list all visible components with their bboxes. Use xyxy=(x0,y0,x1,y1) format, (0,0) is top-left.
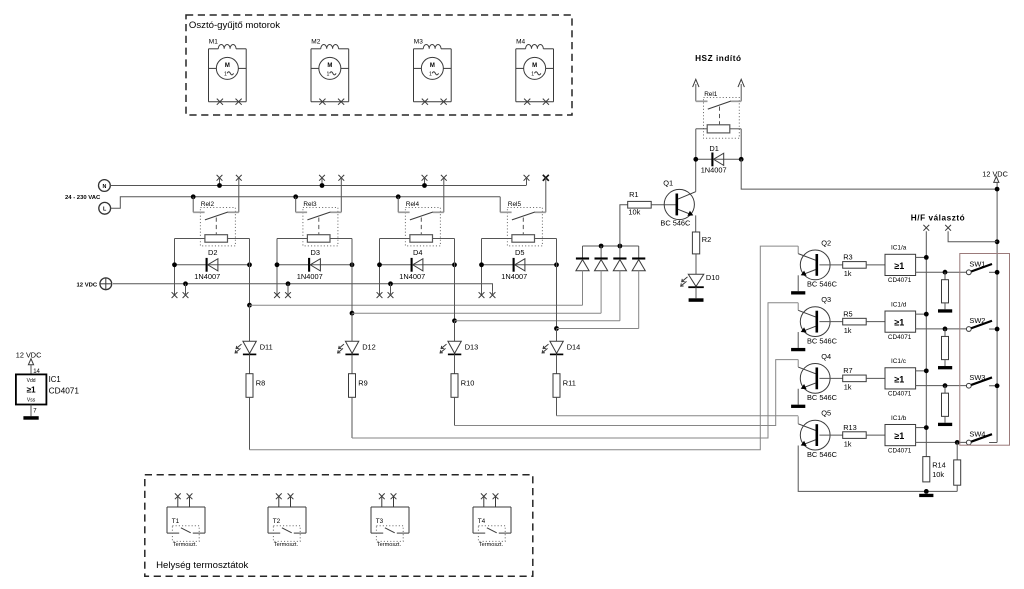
svg-text:HSZ indító: HSZ indító xyxy=(695,54,741,63)
connector X pair T3 xyxy=(379,493,397,499)
diode D6 xyxy=(576,246,589,305)
wire IC1/c output xyxy=(916,383,967,388)
relay Rel5 xyxy=(500,201,546,246)
LED D14 xyxy=(542,341,580,354)
svg-text:IC1/c: IC1/c xyxy=(891,358,907,365)
wire LED column D14 xyxy=(556,329,558,342)
pulldown resistor row 4 xyxy=(926,442,960,491)
svg-text:CD4071: CD4071 xyxy=(888,334,912,341)
svg-text:N: N xyxy=(102,184,106,190)
svg-text:Termoszt.: Termoszt. xyxy=(479,542,504,548)
wire Q3 base drop xyxy=(797,303,799,311)
connector X pair T1 xyxy=(175,493,193,499)
LED D12 xyxy=(338,341,376,354)
wire Q4 emitter to ground xyxy=(797,389,799,405)
svg-text:CD4071: CD4071 xyxy=(49,386,80,396)
wire coil leads Rel2 xyxy=(175,238,250,240)
wire LED column D11 xyxy=(249,305,251,341)
svg-text:12 VDC: 12 VDC xyxy=(77,282,98,288)
wire bus to diode row 2 xyxy=(352,312,601,314)
svg-text:BC 546C: BC 546C xyxy=(660,218,691,227)
wire 12VDC stub Rel3 xyxy=(286,281,291,295)
wire bus to diode row 1 xyxy=(250,304,583,306)
svg-text:IC1: IC1 xyxy=(49,375,61,384)
diode D1 1N4007 xyxy=(693,144,743,175)
node bus junction Rel2 xyxy=(247,303,252,308)
connector X pair above Rel5 xyxy=(524,175,549,181)
wire L arm Rel4 xyxy=(396,194,401,212)
wire left leg Rel2 xyxy=(174,239,176,296)
thermostat T4 xyxy=(473,496,511,548)
svg-text:Q5: Q5 xyxy=(821,409,831,418)
svg-text:CD4071: CD4071 xyxy=(888,391,912,398)
wire R1 to Q1 base xyxy=(651,204,675,206)
wire R9 to Q3 base xyxy=(352,303,798,438)
svg-text:M: M xyxy=(532,63,537,69)
svg-text:D1: D1 xyxy=(709,144,718,153)
wire 12VDC rail xyxy=(996,182,998,442)
wire LED to R9 xyxy=(351,354,353,373)
svg-text:T1: T1 xyxy=(172,518,180,525)
resistor R13 1k xyxy=(819,423,885,449)
ground Q2 xyxy=(791,291,805,294)
LED D13 xyxy=(440,341,478,354)
svg-text:CD4071: CD4071 xyxy=(888,447,912,454)
LED D10 xyxy=(681,273,720,287)
wire L arm Rel3 xyxy=(293,194,298,212)
svg-text:H/F választó: H/F választó xyxy=(911,213,965,222)
svg-text:Rel5: Rel5 xyxy=(508,201,522,208)
resistor R7 1k xyxy=(819,366,885,392)
wire diode OR top bus xyxy=(583,244,639,249)
wire R11 to Q5 base xyxy=(557,415,799,417)
svg-text:IC1/a: IC1/a xyxy=(891,245,907,252)
svg-text:≥1: ≥1 xyxy=(894,374,904,384)
motor M2 xyxy=(311,39,349,105)
svg-text:T2: T2 xyxy=(273,518,281,525)
thermostat T3 xyxy=(371,496,409,548)
transistor Q4 BC546C xyxy=(798,352,837,402)
OR gate IC1/b CD4071 xyxy=(885,415,916,455)
svg-text:Rel1: Rel1 xyxy=(704,91,718,98)
terminal L xyxy=(99,202,111,214)
svg-text:Rel3: Rel3 xyxy=(303,201,317,208)
wire bus to diode row 3 xyxy=(455,320,620,322)
ground below D10 xyxy=(689,298,704,302)
svg-text:IC1/d: IC1/d xyxy=(891,301,907,308)
wire coil leads Rel5 xyxy=(482,238,557,240)
wire D10 to ground xyxy=(695,287,697,298)
wire Q5 base drop xyxy=(797,416,799,424)
svg-text:1: 1 xyxy=(429,72,432,78)
ground pulldown row 3 xyxy=(938,423,952,426)
wire right leg Rel2 xyxy=(249,239,251,306)
wire IC1/a output xyxy=(916,270,967,275)
wire left leg Rel5 xyxy=(481,239,483,296)
diode D3 1N4007 xyxy=(275,248,355,281)
terminal 12 VDC (+) xyxy=(100,278,112,290)
svg-text:M2: M2 xyxy=(311,39,320,46)
wire IC1/c input to select rail xyxy=(916,368,929,373)
svg-text:1k: 1k xyxy=(844,269,852,278)
relay Rel1 xyxy=(696,91,741,138)
svg-text:R8: R8 xyxy=(256,378,265,387)
svg-text:BC 546C: BC 546C xyxy=(807,393,838,402)
node rail junctions xyxy=(995,187,1000,245)
wire IC1/b input to select rail xyxy=(916,425,929,430)
svg-text:Rel4: Rel4 xyxy=(406,201,420,208)
switch SW1 xyxy=(966,259,999,274)
svg-text:R7: R7 xyxy=(843,366,852,375)
switch SW4 xyxy=(966,429,997,444)
diode D8 xyxy=(613,246,626,321)
wire N stub Rel3 xyxy=(320,178,325,188)
resistor R3 1k xyxy=(819,253,885,279)
wire L arm Rel5 xyxy=(499,197,501,213)
wire base node to R1 xyxy=(620,205,628,246)
wire LED to R10 xyxy=(454,354,456,373)
switch SW2 xyxy=(966,316,999,331)
svg-text:1N4007: 1N4007 xyxy=(297,272,323,281)
thermostat T1 xyxy=(167,496,205,548)
wire coil leads Rel3 xyxy=(277,238,352,240)
wire Vss xyxy=(30,405,32,417)
svg-text:Osztó-gyűjtő motorok: Osztó-gyűjtő motorok xyxy=(189,20,280,31)
svg-text:12 VDC: 12 VDC xyxy=(982,170,1008,179)
selector frame SW1-SW4 xyxy=(960,254,1010,446)
arrow out left Rel1 xyxy=(693,79,699,101)
svg-text:M: M xyxy=(327,63,332,69)
svg-text:≥1: ≥1 xyxy=(27,385,37,395)
svg-text:1k: 1k xyxy=(844,439,852,448)
IC CD4071 power symbol IC1 xyxy=(16,374,80,404)
svg-text:T3: T3 xyxy=(376,518,384,525)
svg-text:1: 1 xyxy=(224,72,227,78)
ground IC1 xyxy=(23,416,38,420)
svg-text:Rel2: Rel2 xyxy=(201,201,215,208)
transistor Q3 BC546C xyxy=(798,295,837,345)
resistor R14 10k xyxy=(923,457,946,482)
wire 12VDC stub Rel5 xyxy=(492,292,494,295)
transistor Q2 BC546C xyxy=(798,239,837,289)
svg-text:Vdd: Vdd xyxy=(27,378,36,384)
wire Q1 emitter to R2 xyxy=(695,215,697,232)
connector X pair above Rel2 xyxy=(217,175,242,181)
svg-text:CD4071: CD4071 xyxy=(888,277,912,284)
thermostat T2 xyxy=(268,496,306,548)
connector X pair T2 xyxy=(276,493,294,499)
svg-text:1k: 1k xyxy=(844,326,852,335)
resistor R8 xyxy=(246,374,265,398)
wire coil leads Rel4 xyxy=(380,238,455,240)
svg-text:1N4007: 1N4007 xyxy=(701,166,727,175)
resistor R1 10k xyxy=(628,190,652,217)
svg-text:IC1/b: IC1/b xyxy=(891,415,907,422)
wire LED to R11 xyxy=(556,354,558,373)
svg-text:≥1: ≥1 xyxy=(894,261,904,271)
motor M4 xyxy=(516,39,554,105)
pulldown resistor row 1 xyxy=(942,272,949,309)
svg-text:D10: D10 xyxy=(706,273,720,282)
node bus junction Rel5 xyxy=(554,326,559,331)
ground Q4 xyxy=(791,405,805,408)
wire IC1/a input to select rail xyxy=(916,255,929,260)
wire R11 to base bus xyxy=(556,397,558,415)
wire Q4 base drop xyxy=(797,360,799,368)
wire N stub Rel5 xyxy=(526,178,528,186)
wire N stub Rel2 xyxy=(217,178,222,188)
relay Rel3 xyxy=(296,201,342,246)
relay Rel2 xyxy=(193,201,239,246)
wire L arm Rel2 xyxy=(191,194,196,212)
svg-text:R13: R13 xyxy=(843,423,857,432)
ground pulldown row 1 xyxy=(938,309,952,312)
svg-text:Q2: Q2 xyxy=(821,239,831,248)
resistor R2 xyxy=(692,232,711,254)
svg-text:R2: R2 xyxy=(702,235,711,244)
svg-text:T4: T4 xyxy=(478,518,486,525)
svg-text:M: M xyxy=(225,63,230,69)
pulldown resistor row 2 xyxy=(942,329,949,366)
transistor Q5 BC546C xyxy=(798,409,837,459)
svg-text:Termoszt.: Termoszt. xyxy=(173,542,198,548)
svg-text:10k: 10k xyxy=(932,470,944,479)
wire left leg Rel4 xyxy=(379,239,381,296)
diode D9 xyxy=(632,246,645,329)
OR gate IC1/a CD4071 xyxy=(885,245,916,285)
svg-text:Termoszt.: Termoszt. xyxy=(274,542,299,548)
svg-text:R10: R10 xyxy=(461,378,475,387)
node bus junction Rel4 xyxy=(452,318,457,323)
node ground junction xyxy=(924,489,929,494)
terminal N xyxy=(99,180,111,192)
svg-text:1: 1 xyxy=(531,72,534,78)
wire contact riser Rel3 xyxy=(340,178,342,213)
wire bus to diode row 4 xyxy=(557,328,639,330)
wire LED to R8 xyxy=(249,354,251,373)
connector X H select xyxy=(923,225,929,457)
OR gate IC1/c CD4071 xyxy=(885,358,916,398)
wire R10 to Q4 base xyxy=(455,360,799,426)
svg-text:BC 546C: BC 546C xyxy=(807,280,838,289)
wire Q2 emitter to ground xyxy=(797,275,799,291)
wire IC1/b output xyxy=(916,440,967,445)
dashed enclosure: Helység termosztátok xyxy=(145,475,533,577)
svg-text:R9: R9 xyxy=(358,378,367,387)
wire 12VDC supply line xyxy=(113,284,493,292)
wire contact riser Rel2 xyxy=(238,178,240,213)
svg-text:D13: D13 xyxy=(465,343,479,352)
svg-text:D4: D4 xyxy=(413,248,422,257)
svg-text:R1: R1 xyxy=(629,190,638,199)
wire LED column D12 xyxy=(351,313,353,341)
svg-text:24 - 230 VAC: 24 - 230 VAC xyxy=(65,195,101,201)
svg-text:D3: D3 xyxy=(311,248,320,257)
svg-text:1k: 1k xyxy=(844,383,852,392)
svg-text:≥1: ≥1 xyxy=(894,318,904,328)
svg-text:10k: 10k xyxy=(628,208,640,217)
connector X pair below Rel3 xyxy=(274,292,291,298)
svg-text:Helység termosztátok: Helység termosztátok xyxy=(156,560,248,571)
svg-text:Q1: Q1 xyxy=(663,178,673,187)
wire R8 to base bus xyxy=(249,397,251,450)
svg-text:Q3: Q3 xyxy=(821,295,831,304)
wire Rel1 coil leads xyxy=(696,129,741,160)
motor M3 xyxy=(414,39,452,105)
svg-text:L: L xyxy=(103,207,107,213)
svg-text:Termoszt.: Termoszt. xyxy=(377,542,402,548)
wire R8 to Q2 base xyxy=(250,246,799,450)
resistor R9 xyxy=(349,374,368,398)
resistor R10 xyxy=(451,374,474,398)
wire D1 to 12VDC rail xyxy=(741,159,997,189)
diode D2 1N4007 xyxy=(172,248,252,281)
connector X pair below Rel4 xyxy=(377,292,394,298)
svg-text:BC 546C: BC 546C xyxy=(807,336,838,345)
wire 12VDC stub Rel2 xyxy=(183,281,188,295)
svg-text:R3: R3 xyxy=(843,253,852,262)
wire IC1/d output xyxy=(916,327,967,332)
svg-text:M4: M4 xyxy=(516,39,525,46)
wire R10 to base bus xyxy=(454,397,456,425)
svg-text:Vss: Vss xyxy=(27,398,36,404)
svg-text:1N4007: 1N4007 xyxy=(399,272,425,281)
svg-text:12 VDC: 12 VDC xyxy=(16,351,42,360)
node bus junction Rel3 xyxy=(350,311,355,316)
svg-text:7: 7 xyxy=(33,409,37,415)
wire contact riser Rel5 xyxy=(545,178,547,213)
ground pulldown row 2 xyxy=(938,366,952,369)
connector X F select xyxy=(945,225,997,242)
svg-text:D2: D2 xyxy=(208,248,217,257)
svg-text:R14: R14 xyxy=(932,461,946,470)
transistor Q1 BC546C xyxy=(660,178,695,227)
svg-text:1: 1 xyxy=(326,72,329,78)
wire R9 to base bus xyxy=(351,397,353,438)
connector X pair above Rel4 xyxy=(422,175,447,181)
svg-text:D14: D14 xyxy=(567,343,581,352)
arrow 12VDC supply xyxy=(994,177,999,183)
svg-text:M3: M3 xyxy=(414,39,423,46)
wire IC1/d input to select rail xyxy=(916,312,929,317)
wire N line xyxy=(110,185,526,187)
pulldown resistor row 3 xyxy=(942,386,949,423)
connector X pair T4 xyxy=(481,493,499,499)
wire Vdd xyxy=(30,365,32,375)
OR gate IC1/d CD4071 xyxy=(885,301,916,341)
connector X pair above Rel3 xyxy=(319,175,344,181)
svg-text:≥1: ≥1 xyxy=(894,431,904,441)
svg-text:1N4007: 1N4007 xyxy=(194,272,220,281)
resistor R11 xyxy=(553,374,576,398)
svg-text:D11: D11 xyxy=(260,343,273,352)
arrow 12VDC IC1 xyxy=(28,359,33,365)
connector X pair below Rel5 xyxy=(479,292,496,298)
svg-text:D12: D12 xyxy=(362,343,376,352)
svg-text:Q4: Q4 xyxy=(821,352,831,361)
wire right leg Rel5 xyxy=(556,239,558,329)
wire right leg Rel3 xyxy=(351,239,353,314)
wire contact riser Rel4 xyxy=(443,178,445,213)
diode D7 xyxy=(595,246,608,313)
svg-text:M: M xyxy=(430,63,435,69)
ground Q3 xyxy=(791,348,805,351)
diode D5 1N4007 xyxy=(479,248,559,281)
wire left leg Rel3 xyxy=(276,239,278,296)
wire L line xyxy=(111,197,501,209)
wire Q1 collector to D1 xyxy=(695,159,697,191)
svg-text:BC 546C: BC 546C xyxy=(807,450,838,459)
svg-text:M1: M1 xyxy=(209,39,218,46)
wire Q2 base drop xyxy=(797,246,799,254)
resistor R5 1k xyxy=(819,309,885,335)
relay Rel4 xyxy=(398,201,444,246)
svg-text:R5: R5 xyxy=(843,309,852,318)
motor M1 xyxy=(209,39,247,105)
ground R14 xyxy=(919,494,933,497)
connector X pair below Rel2 xyxy=(172,292,189,298)
dashed enclosure: Osztó-gyűjtő motorok xyxy=(186,15,572,115)
svg-text:1N4007: 1N4007 xyxy=(501,272,527,281)
wire Q3 emitter to ground xyxy=(797,332,799,348)
svg-text:R11: R11 xyxy=(563,378,576,387)
wire N stub Rel4 xyxy=(422,178,427,188)
wire LED column D13 xyxy=(454,321,456,342)
wire 12VDC stub Rel4 xyxy=(388,281,393,295)
switch SW3 xyxy=(966,373,999,388)
wire Q5 emitter return xyxy=(798,445,926,491)
wire R2 to D10 xyxy=(695,254,697,274)
svg-text:D5: D5 xyxy=(515,248,524,257)
arrow out right Rel1 xyxy=(738,79,744,101)
wire right leg Rel4 xyxy=(454,239,456,321)
diode D4 1N4007 xyxy=(377,248,457,281)
LED D11 xyxy=(235,341,273,354)
